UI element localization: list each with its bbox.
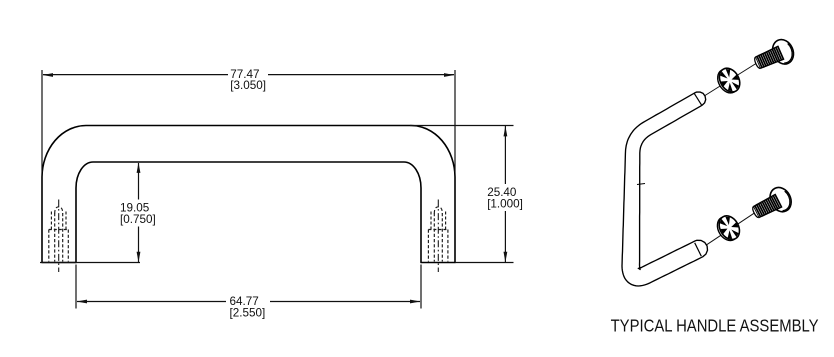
center line xyxy=(58,200,60,273)
handle body outline xyxy=(42,126,455,263)
cap line upper leg xyxy=(694,93,702,105)
threaded shank xyxy=(754,46,785,70)
arrowhead height dim top xyxy=(504,126,508,136)
left threaded stud (hidden lines) xyxy=(49,200,69,273)
svg-text:[1.000]: [1.000] xyxy=(487,198,523,211)
arrowhead width dim right xyxy=(444,73,454,77)
washer internal teeth xyxy=(716,66,743,95)
washer internal teeth xyxy=(716,213,743,242)
lower screw xyxy=(748,184,795,224)
washer thickness ellipse xyxy=(714,66,743,97)
dimension lines xyxy=(40,70,514,309)
arrowhead inner-height dim top xyxy=(137,163,141,173)
upper lock washer xyxy=(714,65,744,97)
crossbar tick xyxy=(637,184,645,185)
screw pan head xyxy=(766,184,795,216)
upper outer lines xyxy=(50,212,52,230)
lower outer lines xyxy=(48,230,50,262)
arrowhead inner-width dim left xyxy=(77,300,87,304)
bottom line extension left xyxy=(40,262,140,264)
right threaded stud (hidden lines) xyxy=(428,200,448,273)
dim 25.40 line xyxy=(504,126,506,184)
head inner arc xyxy=(778,43,796,63)
washer face xyxy=(715,65,744,96)
dim 77.47 extension lines xyxy=(41,70,43,172)
cap line lower leg xyxy=(695,243,702,256)
inner (minor dia) lines xyxy=(54,213,56,262)
dim 64.77 line xyxy=(77,301,226,303)
upper screw xyxy=(751,36,797,75)
arrowhead inner-height dim bottom xyxy=(137,252,141,262)
lower lock washer xyxy=(713,212,743,244)
svg-text:[0.750]: [0.750] xyxy=(120,213,156,226)
threaded shank xyxy=(751,194,782,219)
dome tip xyxy=(55,207,63,214)
screw pan head xyxy=(769,36,797,67)
dim 77.47 line xyxy=(43,74,228,76)
dim 64.77 extensions xyxy=(75,265,77,309)
washer thickness ellipse xyxy=(713,213,742,244)
svg-text:[3.050]: [3.050] xyxy=(230,79,266,92)
step line xyxy=(49,229,69,231)
svg-text:TYPICAL HANDLE ASSEMBLY: TYPICAL HANDLE ASSEMBLY xyxy=(611,315,819,335)
arrowhead width dim left xyxy=(43,73,53,77)
dim 25.40 extensions xyxy=(410,125,514,127)
dim 19.05 line xyxy=(138,163,140,200)
head inner arc xyxy=(775,191,793,212)
arrowhead height dim bottom xyxy=(504,252,508,262)
axis line lower xyxy=(703,213,755,247)
iso handle tube xyxy=(622,92,708,286)
washer face xyxy=(715,212,744,243)
svg-text:[2.550]: [2.550] xyxy=(230,306,266,319)
arrowhead inner-width dim right xyxy=(410,300,420,304)
axis line upper xyxy=(701,64,756,99)
